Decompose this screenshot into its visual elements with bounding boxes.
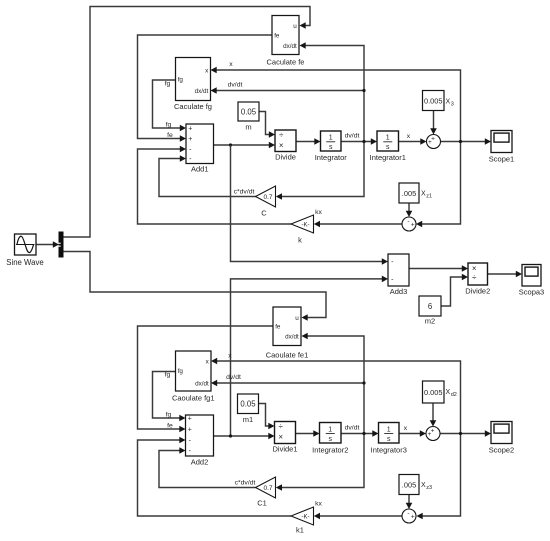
svg-text:Sine Wave: Sine Wave — [6, 258, 43, 267]
svg-text:fg: fg — [178, 368, 184, 375]
svg-text:1: 1 — [386, 135, 390, 142]
wire Integrator output to Integrator1 — [341, 141, 372, 143]
svg-text:Integrator1: Integrator1 — [370, 153, 406, 162]
demux — [59, 232, 64, 258]
wire constant Xz3 down to Sum2b — [408, 495, 410, 504]
gain k1 value -K- — [291, 507, 314, 535]
svg-text:s: s — [329, 436, 333, 443]
svg-text:dx/dt: dx/dt — [285, 333, 299, 340]
wire fg output of Caoulate fg1 to Add2 input 1 — [153, 372, 181, 419]
junction Add2 output — [229, 434, 232, 437]
wire gain k1 output to Add2 input 3 — [138, 440, 292, 516]
svg-text:-K-: -K- — [302, 515, 310, 521]
wire dv/dt2 feedback to Caoulate fg1 dx/dt input — [217, 382, 365, 384]
wire Add2 output branch to Add3 input 2 — [231, 279, 383, 436]
wire dv/dt2 feedback down to gain C1 input — [281, 434, 364, 488]
svg-text:Caoulate fg1: Caoulate fg1 — [172, 394, 215, 403]
constant Xz3 value .005 — [399, 475, 432, 495]
svg-text:dv/dt: dv/dt — [345, 425, 360, 432]
block Sine Wave — [6, 234, 43, 267]
wire constant m1 to Divide1 divide input — [259, 404, 270, 427]
wire fg output of Caculate fg to Add1 input 1 — [153, 80, 181, 128]
svg-text:3: 3 — [451, 101, 454, 107]
svg-text:Divide: Divide — [275, 153, 296, 162]
integrator block Integrator — [315, 131, 348, 162]
wire x feedback to Caculate fg x input — [216, 70, 461, 142]
svg-text:x: x — [407, 133, 411, 140]
svg-text:.005: .005 — [402, 189, 416, 198]
svg-text:+: + — [411, 221, 415, 228]
wire constant m to Divide divide input — [259, 112, 270, 135]
junction x2 feedback — [459, 432, 462, 435]
svg-text:0.7: 0.7 — [263, 485, 272, 492]
wire constant Xz1 down to Sum2 — [408, 203, 410, 212]
svg-text:Integrator: Integrator — [315, 153, 348, 162]
wire gain k output to Add1 input 3 — [138, 149, 292, 224]
sum circle Sum2b — [402, 509, 416, 523]
svg-text:C1: C1 — [257, 499, 267, 508]
wire Divide2 output to Scope3 — [488, 273, 517, 275]
scope Scope3 — [519, 265, 544, 297]
svg-text:0.7: 0.7 — [263, 194, 272, 201]
scope Scope2 — [489, 422, 514, 455]
wire Demux out2 loop to Caoulate fe1 u input — [64, 252, 327, 318]
svg-text:÷: ÷ — [279, 130, 284, 139]
svg-text:fg: fg — [178, 76, 184, 83]
svg-text:x: x — [228, 353, 232, 360]
wire dv/dt feedback down to gain C input — [281, 142, 364, 197]
svg-text:Integrator3: Integrator3 — [371, 446, 407, 455]
svg-text:z1: z1 — [426, 193, 432, 199]
sum block Add3 — [388, 254, 409, 296]
svg-text:fe: fe — [275, 323, 281, 330]
svg-text:Add1: Add1 — [191, 165, 209, 174]
subsystem Caoulate fe1 — [266, 307, 309, 360]
integrator block Integrator1 — [370, 131, 406, 162]
svg-text:x: x — [404, 425, 408, 432]
svg-text:÷: ÷ — [279, 422, 284, 431]
wire fe output of Caoulate fe1 to Add2 input 2 — [138, 326, 274, 429]
wire x2 feedback down to Sum2b right input — [422, 434, 461, 517]
svg-text:1: 1 — [329, 135, 333, 142]
svg-text:.005: .005 — [402, 480, 416, 489]
svg-text:-K-: -K- — [302, 223, 310, 229]
junction dv/dt to fg — [362, 89, 365, 92]
sum block Add1 — [186, 124, 214, 174]
svg-text:dx/dt: dx/dt — [283, 43, 297, 50]
svg-text:Scope1: Scope1 — [489, 155, 514, 164]
constant m value 0.05 — [238, 102, 259, 132]
subsystem Caculate fg — [174, 58, 212, 111]
svg-text:u: u — [293, 23, 297, 30]
wire Sum2b output to gain k1 input — [319, 515, 402, 517]
svg-text:-: - — [407, 510, 409, 517]
svg-text:c*dv/dt: c*dv/dt — [234, 189, 255, 196]
wire dv/dt feedback up to Caculate fe dx/dt input — [305, 46, 365, 142]
svg-text:6: 6 — [428, 302, 432, 311]
svg-text:Integrator2: Integrator2 — [312, 446, 348, 455]
sum block Add2 — [186, 415, 214, 467]
svg-text:Caoulate fe1: Caoulate fe1 — [266, 351, 309, 360]
constant m2 value 6 — [419, 296, 441, 326]
wire constant m2 to Divide2 input 2 — [441, 277, 463, 306]
svg-text:s: s — [329, 144, 333, 151]
svg-text:kx: kx — [315, 501, 322, 508]
svg-text:+: + — [188, 415, 192, 422]
wire Add1 output branch to Add3 input 1 — [231, 145, 383, 262]
svg-text:Divide1: Divide1 — [272, 445, 297, 454]
svg-text:+: + — [188, 136, 192, 143]
svg-text:+: + — [431, 427, 435, 434]
svg-text:fe: fe — [274, 32, 280, 39]
svg-text:Scopa3: Scopa3 — [519, 288, 544, 297]
subsystem Caoulate fg1 — [172, 351, 215, 403]
svg-text:s: s — [386, 144, 390, 151]
svg-text:d2: d2 — [451, 392, 457, 398]
svg-text:c*dv/dt: c*dv/dt — [235, 480, 256, 487]
svg-text:dx/dt: dx/dt — [195, 88, 209, 95]
junction dv/dt2 to fg1 — [362, 381, 365, 384]
svg-text:fg: fg — [165, 81, 171, 88]
svg-text:k: k — [298, 236, 302, 245]
wire Add1 output to Divide x input — [214, 144, 270, 146]
wire dv/dt feedback to Caculate fg dx/dt input — [216, 90, 364, 92]
junction Add1 output — [229, 143, 232, 146]
svg-text:1: 1 — [387, 426, 391, 433]
wire x feedback down to Sum2 right input — [421, 142, 461, 225]
svg-text:÷: ÷ — [472, 273, 477, 282]
svg-text:×: × — [279, 141, 284, 150]
svg-text:0.05: 0.05 — [240, 400, 256, 409]
svg-text:dv/dt: dv/dt — [228, 82, 243, 89]
junction dv/dt2 — [362, 432, 365, 435]
wire Sine Wave to Demux — [36, 244, 54, 246]
constant X3 value 0.005 — [423, 91, 454, 111]
junction x feedback — [459, 140, 462, 143]
constant m1 value 0.05 — [238, 394, 259, 424]
wire Divide1 output to Integrator2 — [296, 433, 315, 435]
svg-text:×: × — [472, 264, 477, 273]
svg-text:fe: fe — [167, 132, 173, 139]
scope Scope1 — [489, 131, 514, 164]
wire x2 feedback to Caoulate fg1 x input — [217, 361, 461, 434]
wire Sum1b output to Scope2 — [440, 433, 486, 435]
svg-text:fg: fg — [166, 412, 172, 419]
svg-text:u: u — [295, 315, 299, 322]
svg-text:fe: fe — [167, 423, 173, 430]
wire Sum1 output to Scope1 — [441, 141, 486, 143]
wire Add2 output to Divide1 x input — [214, 435, 270, 437]
svg-text:dv/dt: dv/dt — [345, 133, 360, 140]
svg-text:0.005: 0.005 — [424, 388, 443, 397]
svg-text:s: s — [387, 436, 391, 443]
svg-text:x: x — [229, 61, 233, 68]
svg-text:k1: k1 — [296, 526, 304, 535]
svg-text:dx/dt: dx/dt — [195, 380, 209, 387]
svg-text:Divide2: Divide2 — [465, 287, 490, 296]
wire constant Xd2 down to Sum1b — [432, 403, 434, 421]
wire Add3 output to Divide2 input 1 — [409, 268, 463, 270]
svg-text:+: + — [188, 426, 192, 433]
constant Xz1 value .005 — [399, 183, 432, 203]
wire gain C1 output to Add2 input 4 — [159, 451, 256, 488]
sum circle Sum1 — [427, 135, 441, 149]
divide block Divide1 — [272, 422, 297, 454]
gain C value 0.7 — [256, 186, 276, 218]
svg-text:0.005: 0.005 — [424, 96, 443, 105]
constant Xd2 value 0.005 — [423, 381, 457, 403]
svg-text:1: 1 — [328, 426, 332, 433]
wire Integrator3 output to Sum1b — [399, 433, 421, 435]
divide block Divide2 — [465, 263, 490, 296]
wire dv/dt2 feedback up to Caoulate fe1 dx/dt input — [307, 336, 365, 434]
svg-text:z3: z3 — [426, 485, 432, 491]
wire fe output of Caculate fe to Add1 input 2 — [138, 35, 273, 139]
wire constant X3 down to Sum1 — [433, 111, 435, 130]
svg-text:Add2: Add2 — [191, 458, 209, 467]
svg-text:fg: fg — [166, 122, 172, 129]
wire Demux out1 loop to Caculate fe u input — [64, 7, 311, 238]
svg-text:Scope2: Scope2 — [489, 446, 514, 455]
svg-text:+: + — [188, 125, 192, 132]
integrator block Integrator2 — [312, 423, 348, 455]
svg-text:0.05: 0.05 — [241, 107, 257, 116]
svg-text:m1: m1 — [243, 415, 253, 424]
svg-text:kx: kx — [315, 209, 322, 216]
gain C1 value 0.7 — [256, 477, 276, 508]
wire Integrator2 output to Integrator3 — [341, 433, 373, 435]
wire Divide output to Integrator — [296, 141, 315, 143]
wire gain C output to Add1 input 4 — [159, 159, 256, 197]
svg-text:Caculate fe: Caculate fe — [267, 58, 305, 67]
svg-text:dv/dt: dv/dt — [226, 374, 241, 381]
wire Sum2 output to gain k input — [319, 223, 402, 225]
svg-text:Caculate fg: Caculate fg — [174, 102, 212, 111]
gain k value -K- — [291, 215, 314, 245]
svg-text:+: + — [431, 135, 435, 142]
svg-text:C: C — [261, 209, 267, 218]
svg-text:fg: fg — [165, 372, 171, 379]
svg-text:Add3: Add3 — [390, 287, 408, 296]
svg-text:×: × — [278, 432, 283, 441]
svg-text:-: - — [407, 218, 409, 225]
junction dv/dt — [362, 140, 365, 143]
integrator block Integrator3 — [371, 423, 407, 455]
subsystem Caculate fe — [267, 16, 305, 67]
svg-text:+: + — [411, 513, 415, 520]
svg-text:m2: m2 — [425, 317, 435, 326]
wire Integrator1 output to Sum1 — [399, 141, 422, 143]
svg-text:m: m — [245, 123, 251, 132]
sum circle Sum1b — [426, 427, 440, 441]
sum circle Sum2 — [402, 217, 416, 231]
divide block Divide — [275, 130, 296, 162]
